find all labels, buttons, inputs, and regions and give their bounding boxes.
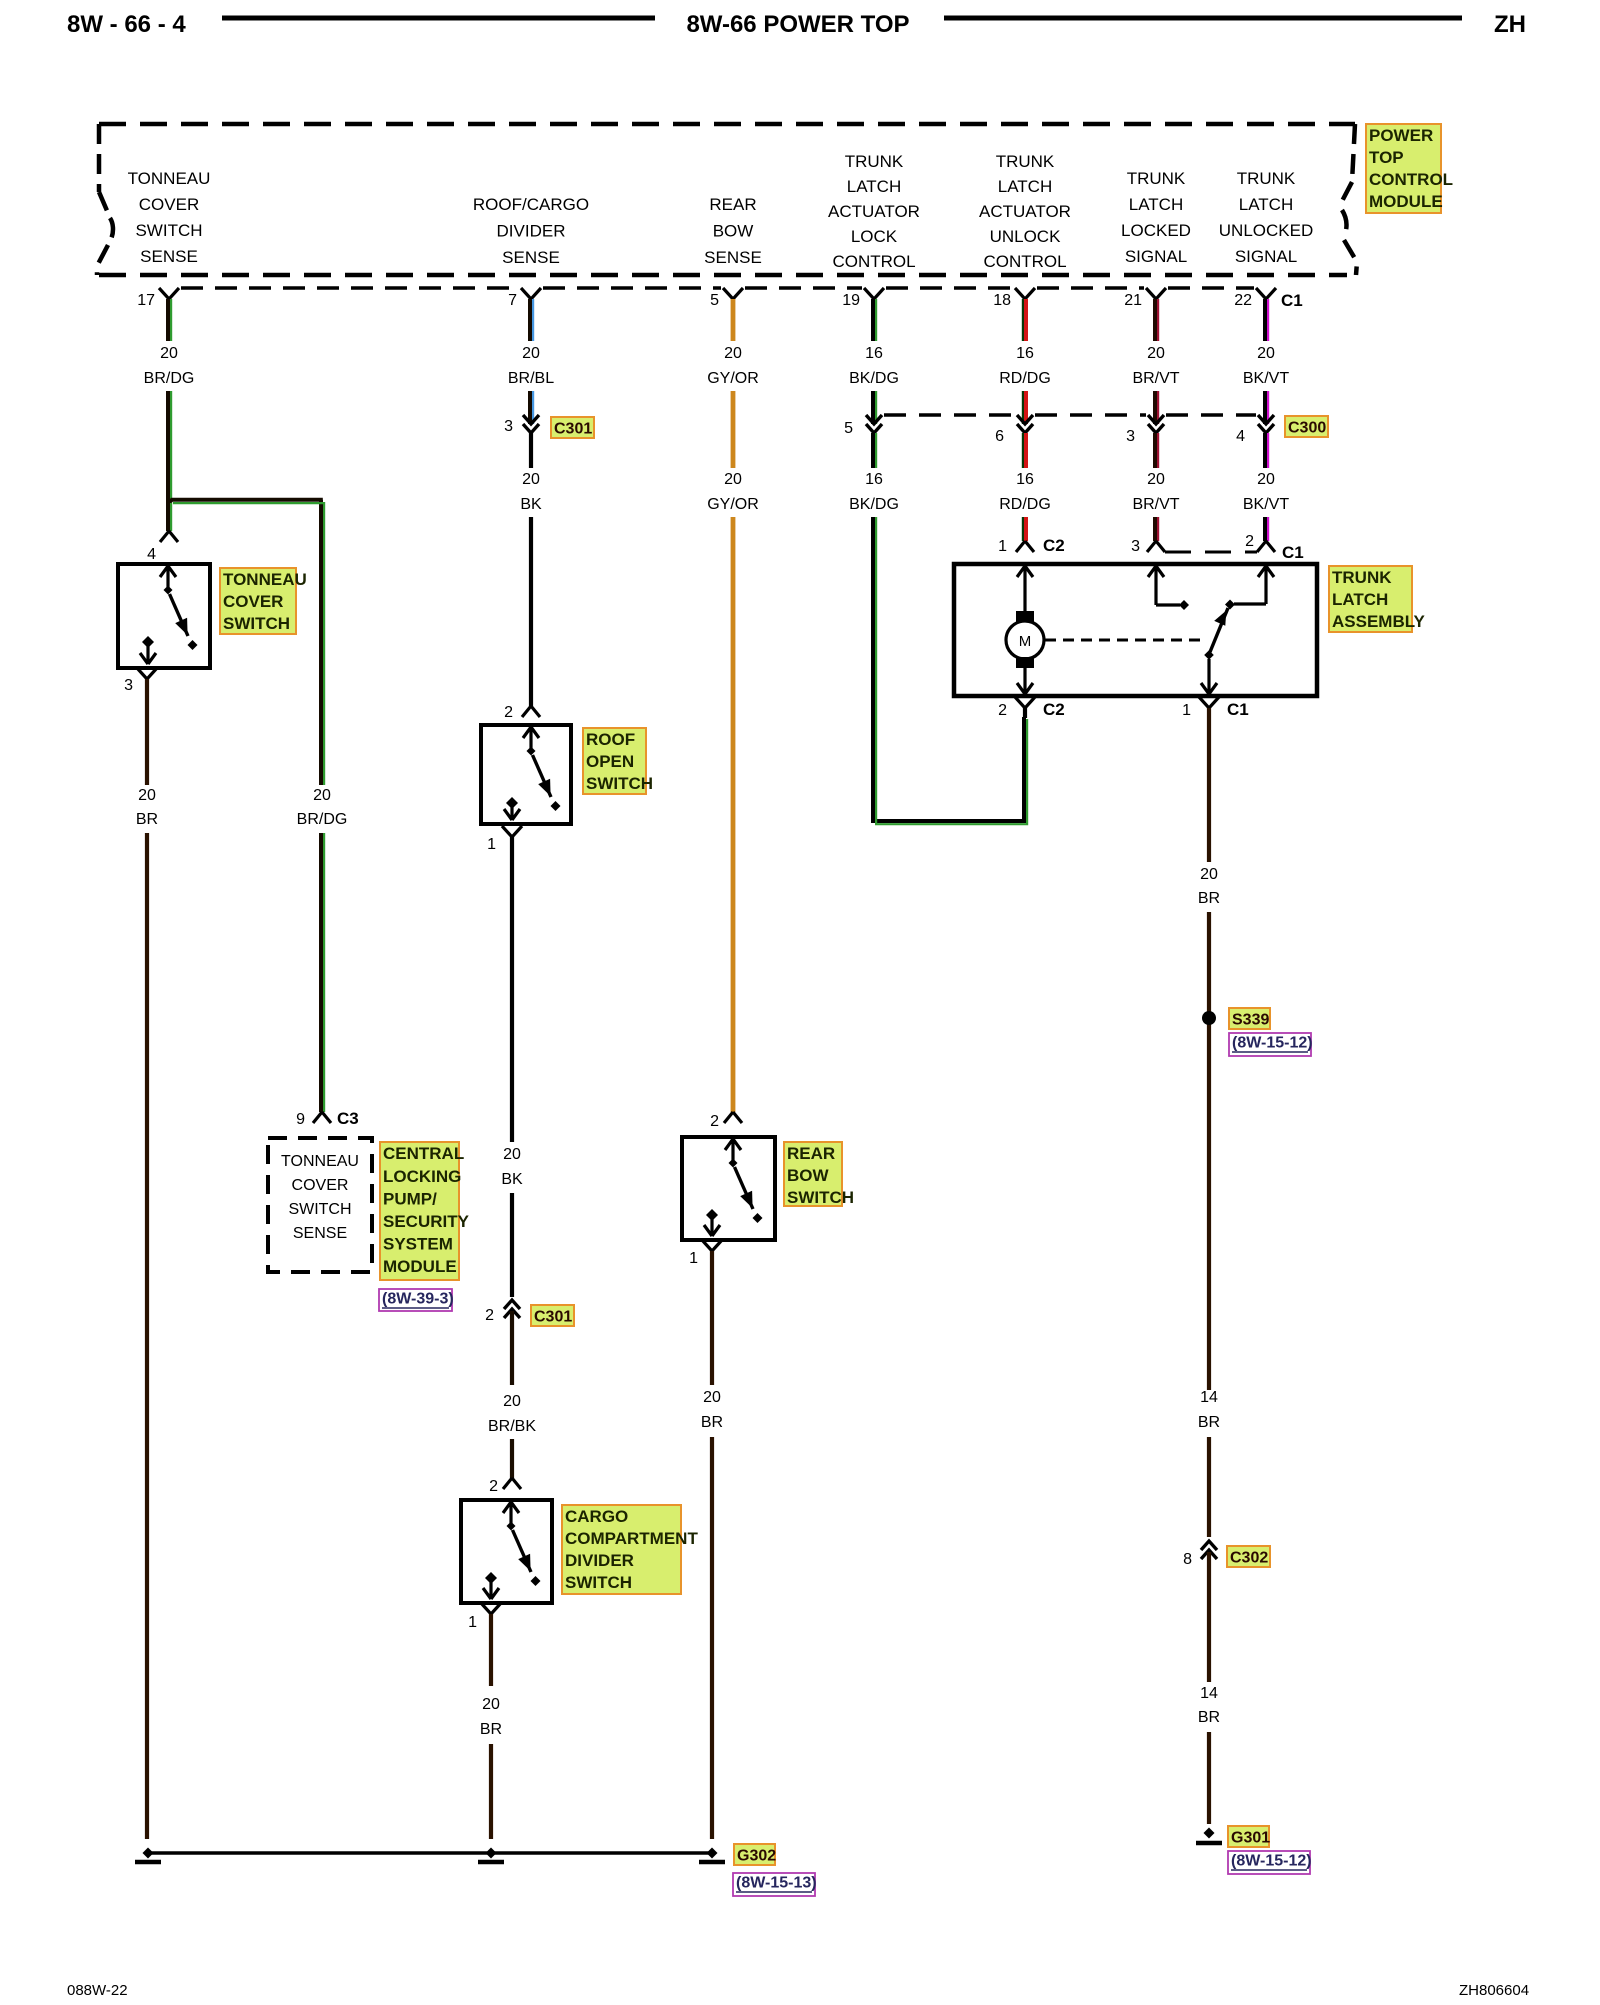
connector C300 pin 5 [866, 415, 882, 433]
svg-text:POWER: POWER [1369, 126, 1433, 145]
trunk latch assembly box [954, 564, 1317, 696]
C300 label [1285, 416, 1328, 437]
wire 5 GY/OR seg3 [731, 517, 736, 1112]
power top control module box [99, 122, 1355, 127]
wire BK/VT seg4 [1263, 517, 1267, 541]
trunk latch pin 2 C1 [1257, 541, 1275, 552]
module connector C1 dashed line [181, 286, 519, 290]
svg-text:17: 17 [137, 292, 155, 309]
svg-text:2: 2 [998, 702, 1007, 719]
svg-text:21: 21 [1124, 292, 1142, 309]
svg-text:2: 2 [485, 1307, 494, 1324]
svg-text:16: 16 [1016, 345, 1034, 362]
svg-text:REAR: REAR [787, 1144, 835, 1163]
svg-text:SWITCH: SWITCH [223, 614, 290, 633]
svg-text:BR: BR [1198, 1414, 1220, 1431]
svg-text:UNLOCKED: UNLOCKED [1219, 221, 1313, 240]
trunk latch pin 1 C2 [1016, 541, 1034, 552]
svg-text:C1: C1 [1281, 291, 1303, 310]
svg-text:COVER: COVER [292, 1177, 349, 1194]
svg-text:8W-66 POWER TOP: 8W-66 POWER TOP [686, 11, 909, 38]
svg-text:BK/DG: BK/DG [849, 496, 899, 513]
dashed link pin3-pin2 [1165, 551, 1257, 554]
wire pin3 20 BR [145, 679, 149, 785]
connector C301 pin 3 [523, 415, 539, 433]
svg-text:20: 20 [1147, 345, 1165, 362]
svg-text:SENSE: SENSE [293, 1225, 347, 1242]
svg-text:20: 20 [703, 1389, 721, 1406]
wire 19 BK/DG seg3 [871, 433, 875, 468]
svg-text:C2: C2 [1043, 536, 1065, 555]
latch switch from pin 2 C1 [1258, 566, 1274, 604]
svg-text:8: 8 [1183, 1551, 1192, 1568]
svg-text:20: 20 [724, 345, 742, 362]
connector C301 pin 2 [504, 1300, 520, 1318]
svg-text:2: 2 [710, 1113, 719, 1130]
POWER TOP CONTROL MODULE label [1366, 124, 1441, 213]
connector C300 pin 6 [1017, 415, 1033, 433]
svg-text:C2: C2 [1043, 700, 1065, 719]
svg-text:C1: C1 [1282, 543, 1304, 562]
wire 21 BR/VT seg2 [1153, 391, 1157, 424]
trunk latch pin 3 [1147, 541, 1165, 552]
svg-text:COVER: COVER [223, 592, 283, 611]
svg-text:SIGNAL: SIGNAL [1235, 247, 1297, 266]
module pin 19 connector [864, 288, 884, 299]
wire 18 RD/DG seg2 [1024, 391, 1028, 424]
svg-text:8W - 66 - 4: 8W - 66 - 4 [67, 11, 186, 38]
svg-text:BK/DG: BK/DG [849, 370, 899, 387]
svg-text:6: 6 [995, 428, 1004, 445]
svg-text:DIVIDER: DIVIDER [565, 1551, 634, 1570]
svg-text:SWITCH: SWITCH [787, 1188, 854, 1207]
svg-text:LATCH: LATCH [1332, 590, 1388, 609]
ground symbol left [143, 1848, 154, 1859]
module pin 5 connector [723, 288, 743, 299]
svg-text:BK: BK [501, 1171, 523, 1188]
wire 17 BR/DG seg1 [166, 299, 170, 341]
motor arrow top [1017, 566, 1033, 611]
central locking pump label [380, 1142, 459, 1280]
svg-text:C1: C1 [1227, 700, 1249, 719]
trunk latch pin 2 C2 [1015, 697, 1035, 708]
svg-text:14: 14 [1200, 1389, 1218, 1406]
svg-text:SWITCH: SWITCH [586, 774, 653, 793]
latch contact from pin 3 [1148, 566, 1164, 605]
G302 label [734, 1844, 775, 1865]
svg-text:DIVIDER: DIVIDER [497, 222, 566, 241]
link 8W-39-3 [379, 1289, 452, 1311]
svg-text:16: 16 [865, 345, 883, 362]
svg-text:RD/DG: RD/DG [999, 496, 1051, 513]
svg-text:5: 5 [844, 420, 853, 437]
wire BR/VT seg4 [1153, 517, 1157, 541]
svg-text:7: 7 [508, 292, 517, 309]
ground symbol G302 [707, 1848, 718, 1859]
svg-text:TRUNK: TRUNK [1127, 169, 1186, 188]
svg-text:4: 4 [1236, 428, 1245, 445]
wire 18 RD/DG seg3 [1024, 433, 1028, 468]
svg-text:9: 9 [296, 1111, 305, 1128]
svg-text:22: 22 [1234, 292, 1252, 309]
svg-text:LOCK: LOCK [851, 227, 898, 246]
svg-text:CONTROL: CONTROL [983, 252, 1066, 271]
tonneau switch pin 3 [137, 668, 157, 679]
svg-text:C300: C300 [1288, 419, 1326, 436]
svg-text:LATCH: LATCH [1239, 195, 1293, 214]
wire 14 BR seg5 [1207, 1732, 1211, 1824]
svg-text:20: 20 [522, 345, 540, 362]
svg-text:TRUNK: TRUNK [1237, 169, 1296, 188]
svg-text:C3: C3 [337, 1109, 359, 1128]
rear bow switch pin 2 [724, 1112, 742, 1123]
connector C3 pin 9 [313, 1112, 331, 1123]
wire 7 BR/BL seg2 [528, 391, 532, 424]
svg-text:1: 1 [998, 538, 1007, 555]
svg-text:MODULE: MODULE [1369, 192, 1443, 211]
wire 20 BR to ground [710, 1251, 714, 1385]
svg-text:3: 3 [1131, 538, 1140, 555]
svg-text:20: 20 [482, 1696, 500, 1713]
ground bus [148, 1851, 712, 1855]
roof open switch pin 2 [522, 706, 540, 717]
svg-text:(8W-15-13): (8W-15-13) [736, 1875, 817, 1892]
wire 20 BR/BK seg1 [510, 1311, 514, 1385]
svg-text:3: 3 [1126, 428, 1135, 445]
svg-text:16: 16 [1016, 471, 1034, 488]
wire 5 GY/OR seg2 [731, 391, 736, 468]
svg-text:PUMP/: PUMP/ [383, 1189, 437, 1208]
svg-text:LOCKED: LOCKED [1121, 221, 1191, 240]
svg-text:(8W-39-3): (8W-39-3) [382, 1291, 454, 1308]
blade to pin 1 C1 [1201, 659, 1217, 694]
ground symbol middle [486, 1848, 497, 1859]
wire 22 BK/VT seg3 [1263, 433, 1267, 468]
module pin 22 connector [1256, 288, 1276, 299]
svg-text:BR: BR [1198, 1709, 1220, 1726]
svg-text:UNLOCK: UNLOCK [990, 227, 1062, 246]
svg-text:CENTRAL: CENTRAL [383, 1144, 464, 1163]
tonneau cover switch [118, 564, 210, 668]
cargo compartment divider switch [461, 1500, 552, 1603]
svg-text:TONNEAU: TONNEAU [223, 570, 307, 589]
svg-text:TONNEAU: TONNEAU [128, 169, 211, 188]
svg-text:2: 2 [504, 704, 513, 721]
svg-text:BK/VT: BK/VT [1243, 496, 1289, 513]
svg-text:SWITCH: SWITCH [565, 1573, 632, 1592]
svg-text:5: 5 [710, 292, 719, 309]
tonneau switch pin 4 [160, 531, 178, 542]
svg-text:20: 20 [522, 471, 540, 488]
motor M1 [1016, 611, 1034, 622]
svg-text:BR/DG: BR/DG [144, 370, 195, 387]
svg-text:REAR: REAR [709, 195, 756, 214]
svg-text:2: 2 [489, 1478, 498, 1495]
svg-text:SIGNAL: SIGNAL [1125, 247, 1187, 266]
C301 label lower [531, 1305, 574, 1326]
cargo switch pin 2 [503, 1478, 521, 1489]
wire BK/DG down-loop [873, 517, 1024, 821]
connector C302 pin 8 [1201, 1541, 1217, 1559]
svg-text:16: 16 [865, 471, 883, 488]
svg-text:SYSTEM: SYSTEM [383, 1235, 453, 1254]
latch switch blade [1210, 608, 1228, 652]
svg-text:MODULE: MODULE [383, 1257, 457, 1276]
svg-text:C301: C301 [554, 420, 592, 437]
C301 label [551, 417, 594, 438]
svg-text:ROOF: ROOF [586, 730, 635, 749]
trunk latch pin 1 C1 [1199, 697, 1219, 708]
wire 14 BR seg3 [1207, 1437, 1211, 1537]
wire 7 BR/BL seg1 [528, 299, 532, 341]
svg-text:BK: BK [520, 496, 542, 513]
module pin 21 connector [1146, 288, 1166, 299]
svg-text:1: 1 [468, 1614, 477, 1631]
svg-text:(8W-15-12): (8W-15-12) [1232, 1035, 1313, 1052]
cargo switch pin 1 [481, 1603, 501, 1614]
svg-text:ROOF/CARGO: ROOF/CARGO [473, 195, 589, 214]
svg-text:TONNEAU: TONNEAU [281, 1153, 359, 1170]
svg-text:BR/BL: BR/BL [508, 370, 554, 387]
svg-text:SWITCH: SWITCH [135, 221, 202, 240]
wire 20 BK seg2 [529, 517, 533, 706]
svg-text:ACTUATOR: ACTUATOR [979, 202, 1071, 221]
svg-text:BR/DG: BR/DG [297, 811, 348, 828]
splice S339 [1202, 1011, 1216, 1025]
svg-text:OPEN: OPEN [586, 752, 634, 771]
svg-text:COMPARTMENT: COMPARTMENT [565, 1529, 698, 1548]
svg-text:BR: BR [701, 1414, 723, 1431]
wire 5 GY/OR seg1 [731, 299, 736, 341]
wire 20 BR/BK seg2 [510, 1439, 514, 1478]
svg-text:C302: C302 [1230, 1549, 1268, 1566]
svg-text:ZH: ZH [1494, 11, 1526, 38]
svg-text:SENSE: SENSE [704, 248, 762, 267]
wire 17 to pin 4 [166, 503, 170, 531]
rear bow switch [682, 1137, 775, 1240]
svg-text:CARGO: CARGO [565, 1507, 628, 1526]
svg-text:20: 20 [1200, 866, 1218, 883]
rear bow switch pin 1 [702, 1240, 722, 1251]
svg-text:20: 20 [160, 345, 178, 362]
svg-text:BOW: BOW [713, 222, 754, 241]
svg-text:S339: S339 [1232, 1011, 1269, 1028]
svg-text:G302: G302 [737, 1847, 776, 1864]
svg-text:TRUNK: TRUNK [1332, 568, 1392, 587]
svg-text:LOCKING: LOCKING [383, 1167, 461, 1186]
wire branch to C3 [168, 500, 323, 785]
svg-text:1: 1 [487, 836, 496, 853]
ground G301 [1204, 1828, 1215, 1839]
module pin 7 connector [521, 288, 541, 299]
svg-text:GY/OR: GY/OR [707, 496, 759, 513]
svg-text:18: 18 [993, 292, 1011, 309]
svg-text:TRUNK: TRUNK [996, 152, 1055, 171]
roof open switch pin 1 [502, 826, 522, 837]
wire 19 BK/DG seg1 [871, 299, 875, 341]
svg-text:LATCH: LATCH [998, 177, 1052, 196]
motor arrow bottom [1017, 667, 1033, 694]
svg-text:BK/VT: BK/VT [1243, 370, 1289, 387]
wire 21 BR/VT seg1 [1153, 299, 1157, 341]
svg-text:BR/BK: BR/BK [488, 1418, 536, 1435]
svg-text:20: 20 [313, 787, 331, 804]
svg-text:3: 3 [504, 418, 513, 435]
svg-text:20: 20 [1257, 471, 1275, 488]
link 8W-15-13 [733, 1873, 815, 1896]
module pin 17 connector [159, 288, 179, 299]
svg-text:CONTROL: CONTROL [832, 252, 915, 271]
wire 20 BK lower [510, 837, 514, 1142]
svg-text:BR: BR [1198, 890, 1220, 907]
svg-text:1: 1 [1182, 702, 1191, 719]
C300 dashed line [884, 413, 1015, 416]
svg-text:20: 20 [503, 1146, 521, 1163]
svg-text:4: 4 [147, 546, 156, 563]
module pin 18 connector [1015, 288, 1035, 299]
connector C300 pin 3 [1148, 415, 1164, 433]
svg-text:088W-22: 088W-22 [67, 1982, 128, 1999]
svg-text:20: 20 [1147, 471, 1165, 488]
wire 20 BK seg1 [529, 433, 533, 468]
wire 17 BR/DG seg2 [166, 391, 170, 503]
roof open switch [481, 725, 571, 824]
svg-text:TRUNK: TRUNK [845, 152, 904, 171]
svg-text:20: 20 [503, 1393, 521, 1410]
wire 14 BR seg4 [1207, 1552, 1211, 1682]
svg-text:SWITCH: SWITCH [288, 1201, 351, 1218]
svg-text:SENSE: SENSE [502, 248, 560, 267]
svg-text:ACTUATOR: ACTUATOR [828, 202, 920, 221]
svg-text:G301: G301 [1231, 1829, 1270, 1846]
svg-text:SECURITY: SECURITY [383, 1212, 470, 1231]
svg-text:ZH806604: ZH806604 [1459, 1982, 1529, 1999]
svg-text:COVER: COVER [139, 195, 199, 214]
wire 22 BK/VT seg2 [1263, 391, 1267, 424]
wire 20 BR to ground [489, 1614, 493, 1686]
svg-text:1: 1 [689, 1250, 698, 1267]
svg-text:BR/VT: BR/VT [1132, 496, 1179, 513]
svg-text:3: 3 [124, 677, 133, 694]
svg-text:RD/DG: RD/DG [999, 370, 1051, 387]
svg-text:CONTROL: CONTROL [1369, 170, 1453, 189]
wire 18 RD/DG seg1 [1024, 299, 1028, 341]
svg-text:LATCH: LATCH [847, 177, 901, 196]
svg-text:BR: BR [480, 1721, 502, 1738]
svg-text:(8W-15-12): (8W-15-12) [1231, 1853, 1312, 1870]
svg-text:ASSEMBLY: ASSEMBLY [1332, 612, 1426, 631]
svg-text:M: M [1019, 633, 1032, 650]
svg-text:C301: C301 [534, 1308, 572, 1325]
svg-text:20: 20 [138, 787, 156, 804]
wire 19 BK/DG seg2 [871, 391, 875, 424]
svg-text:2: 2 [1245, 533, 1254, 550]
svg-text:GY/OR: GY/OR [707, 370, 759, 387]
svg-text:BR: BR [136, 811, 158, 828]
wire 20 BR seg2 [1207, 912, 1211, 1390]
wire 20 BR seg1 [1207, 708, 1211, 862]
connector C300 pin 4 [1258, 415, 1274, 433]
svg-text:14: 14 [1200, 1685, 1218, 1702]
svg-text:BOW: BOW [787, 1166, 830, 1185]
svg-text:BR/VT: BR/VT [1132, 370, 1179, 387]
svg-text:SENSE: SENSE [140, 247, 198, 266]
wire 21 BR/VT seg3 [1153, 433, 1157, 468]
tonneau cover switch sense box [268, 1138, 372, 1272]
svg-text:20: 20 [1257, 345, 1275, 362]
wire RD/DG seg4 [1024, 517, 1028, 541]
svg-text:TOP: TOP [1369, 148, 1404, 167]
wire 22 BK/VT seg1 [1263, 299, 1267, 341]
svg-text:19: 19 [842, 292, 860, 309]
svg-text:LATCH: LATCH [1129, 195, 1183, 214]
svg-text:20: 20 [724, 471, 742, 488]
mechanical dashed link [1045, 639, 1201, 642]
